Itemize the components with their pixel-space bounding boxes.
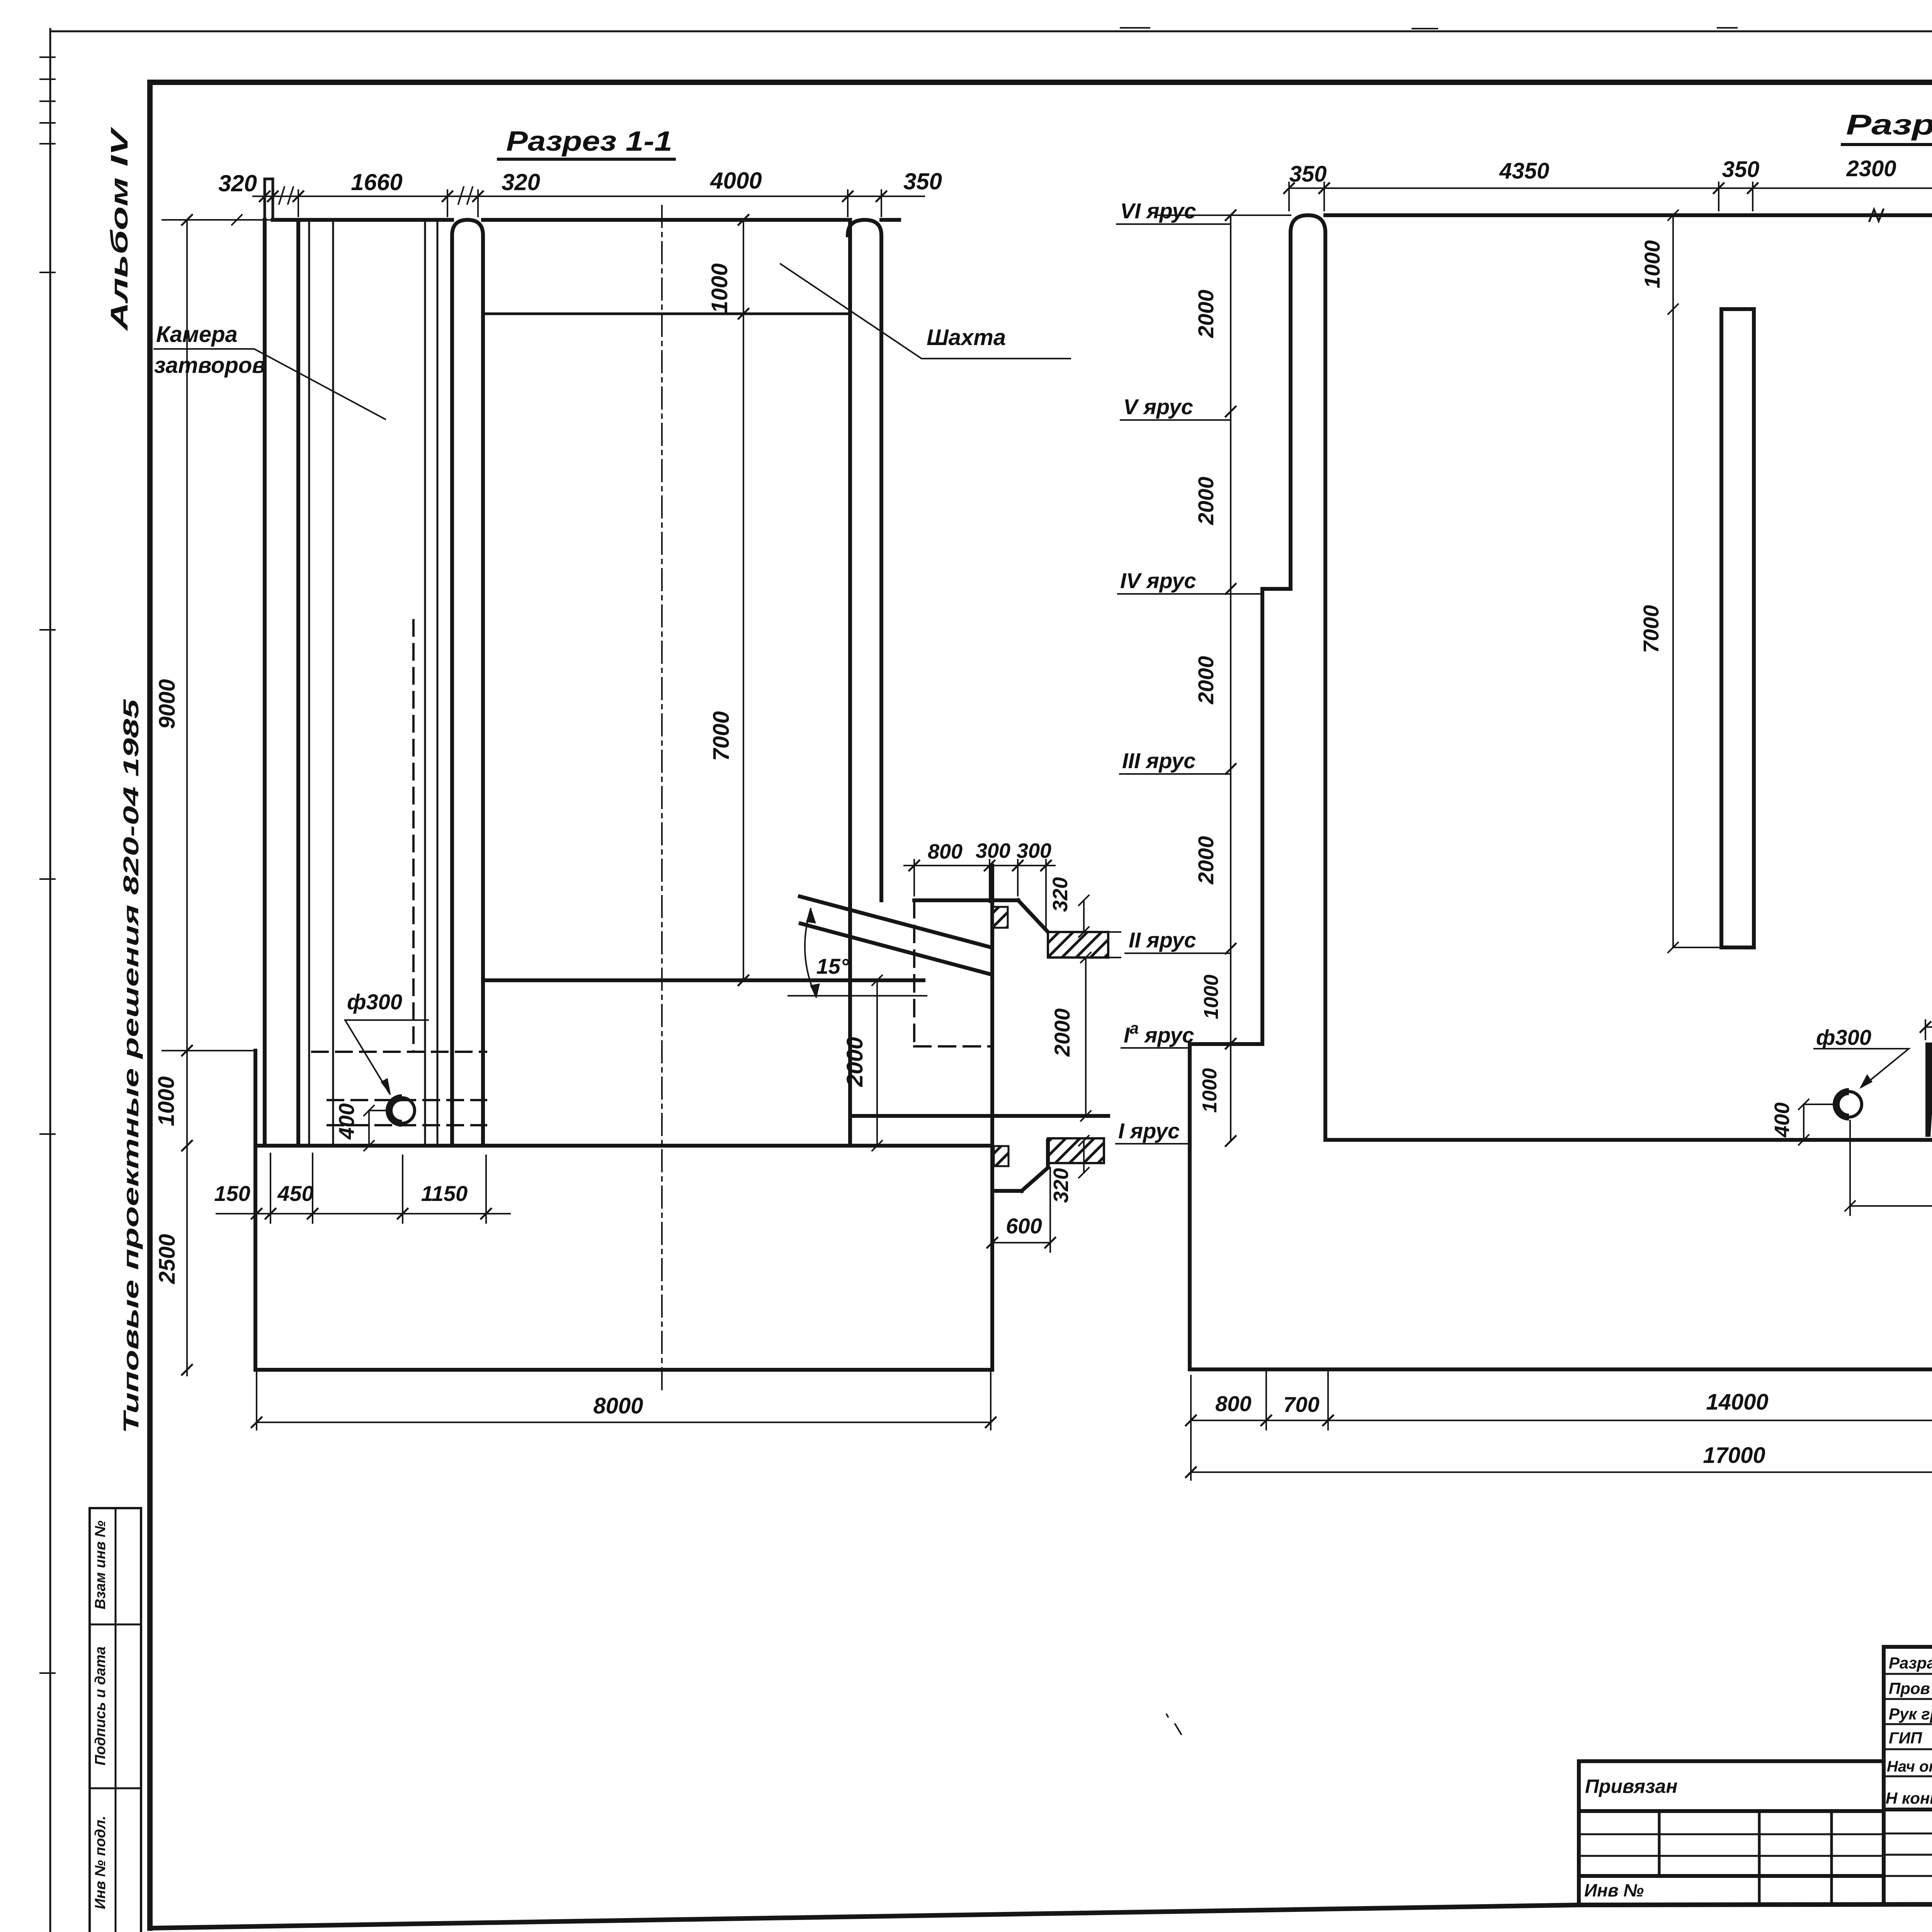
ticks bottom dims — [252, 1209, 491, 1219]
svg-text:450: 450 — [277, 1181, 313, 1206]
15 deg arc — [805, 909, 816, 997]
portal dim line 800/300/300 — [904, 865, 1055, 866]
svg-text:ГИП: ГИП — [1889, 1729, 1922, 1747]
privyazan table — [1579, 1761, 1884, 1903]
left dim line of section 1-1 — [186, 220, 188, 1376]
level line 1000 below top — [483, 313, 848, 315]
svg-text:затворов: затворов — [154, 353, 265, 378]
chute incline lower line — [801, 923, 992, 975]
svg-text:Разрез 3-3: Разрез 3-3 — [1846, 109, 1932, 141]
svg-text:300: 300 — [976, 839, 1010, 862]
svg-text:800: 800 — [1215, 1391, 1251, 1416]
svg-text:7000: 7000 — [1639, 605, 1663, 653]
gate groove lines right — [425, 220, 437, 1146]
bottom-left attribute box — [90, 1508, 141, 1932]
svg-text:600: 600 — [1006, 1214, 1042, 1238]
levels dim line — [1230, 215, 1231, 1141]
dim line 1000/7000 inside shaft — [743, 220, 744, 980]
svg-text:Н контр: Н контр — [1886, 1789, 1932, 1807]
svg-text:150: 150 — [214, 1181, 250, 1206]
svg-text:Пров: Пров — [1889, 1679, 1930, 1697]
stamp outer box — [1884, 1647, 1932, 1903]
svg-text:Подпись и дата: Подпись и дата — [92, 1646, 109, 1765]
svg-text:Альбом IV: Альбом IV — [106, 126, 133, 332]
dim line 8000 — [257, 1370, 991, 1430]
border perforation ticks left — [40, 57, 55, 1673]
left wall inner face — [1323, 232, 1327, 1140]
svg-text:300: 300 — [1017, 839, 1051, 862]
svg-text:ф300: ф300 — [347, 990, 402, 1014]
svg-text:1000: 1000 — [1199, 1068, 1221, 1113]
svg-text:IV ярус: IV ярус — [1120, 568, 1196, 593]
sill band upper (hatched) — [1048, 932, 1108, 957]
svg-text:1000: 1000 — [1200, 975, 1223, 1019]
svg-text:Нач отд: Нач отд — [1887, 1758, 1932, 1775]
extension lines bottom dims — [257, 1153, 486, 1223]
portal outer wall vertical — [990, 866, 994, 1370]
outlet channel floor line — [852, 1114, 1108, 1118]
svg-text:8000: 8000 — [593, 1393, 643, 1418]
shaft floor 3-3 — [1325, 1138, 1932, 1142]
svg-text:320: 320 — [218, 170, 257, 196]
dim line 2000 plug — [872, 975, 882, 1151]
svg-text:1000: 1000 — [1640, 240, 1664, 289]
svg-text:V ярус: V ярус — [1123, 395, 1193, 419]
step extension line left — [162, 1050, 255, 1051]
svg-text:2300: 2300 — [1846, 156, 1896, 181]
hidden gate dashed vertical — [412, 620, 415, 1052]
dim 2000 outlet drop — [1081, 952, 1091, 1121]
gate slot hatched block upper — [993, 907, 1008, 928]
parapet stub on left wall — [265, 179, 273, 220]
svg-text:Шахта: Шахта — [927, 325, 1006, 350]
hidden opening dashed outline — [914, 901, 992, 1046]
svg-text:320: 320 — [502, 169, 540, 195]
portal top slab — [914, 898, 1018, 902]
svg-text:Рук гр: Рук гр — [1889, 1705, 1932, 1723]
sill band lower (hatched) — [1048, 1138, 1104, 1163]
svg-text:700: 700 — [1283, 1392, 1319, 1417]
leader line for Камера затворов — [154, 349, 385, 419]
left wall rounded top — [1291, 215, 1325, 233]
svg-text:2000: 2000 — [1194, 477, 1218, 526]
svg-text:2500: 2500 — [155, 1234, 180, 1284]
foundation slab bottom 3-3 — [1190, 1367, 1932, 1371]
dim ticks top 1-1 — [260, 191, 886, 201]
dim line 17000 — [1191, 1430, 1932, 1480]
hidden dashed horizontal at step — [312, 1051, 486, 1053]
svg-text:III ярус: III ярус — [1122, 748, 1196, 773]
level underlines — [1116, 224, 1262, 1144]
svg-text:2000: 2000 — [1050, 1009, 1074, 1057]
svg-text:Взам инв №: Взам инв № — [92, 1520, 109, 1609]
svg-text:VI ярус: VI ярус — [1120, 199, 1196, 223]
svg-text:350: 350 — [1722, 157, 1760, 182]
break marks on slab — [1869, 209, 1932, 221]
shaft right wall inner face — [848, 220, 852, 1145]
dim 600 — [992, 1168, 1050, 1252]
bottom dim line 150/450/1150 — [216, 1213, 510, 1214]
signature table rows — [1884, 1674, 1932, 1876]
top slab 3-3 — [1325, 213, 1932, 217]
plug top (shaft floor) — [484, 978, 923, 982]
svg-text:1150: 1150 — [421, 1181, 468, 1206]
svg-text:2000: 2000 — [1194, 836, 1218, 885]
foundation left edge — [253, 1051, 257, 1370]
svg-text:320: 320 — [1049, 1168, 1073, 1203]
title underline — [498, 158, 674, 161]
top edge tick at left — [232, 215, 273, 225]
chamber floor — [257, 1144, 992, 1148]
hidden dashed pipe lines — [328, 1100, 486, 1125]
dim 400 (3-3) — [1799, 1099, 1835, 1145]
gate groove lines left — [309, 220, 333, 1146]
baffle dim line 1000/7000 — [1668, 210, 1721, 952]
weir corner block (filled) — [1925, 1043, 1932, 1058]
bottom dim line 800/700/14000/700/800 — [1191, 1371, 1932, 1430]
stray mark — [1166, 1714, 1182, 1735]
leader ф300 (3-3) — [1814, 1049, 1909, 1087]
svg-text:Разраб: Разраб — [1889, 1654, 1932, 1672]
svg-text:400: 400 — [1770, 1102, 1794, 1138]
svg-text:9000: 9000 — [155, 679, 180, 729]
left outer wall — [263, 220, 267, 1146]
baffle wall — [1721, 309, 1754, 947]
svg-text:350: 350 — [903, 168, 942, 194]
svg-text:14000: 14000 — [1706, 1389, 1768, 1415]
svg-text:Привязан: Привязан — [1585, 1776, 1678, 1797]
dim 400 (pipe height) — [364, 1105, 388, 1151]
top slab stub right of wall — [881, 218, 899, 222]
extension lines — [1289, 182, 1932, 211]
svg-text:1660: 1660 — [351, 169, 402, 195]
shaft right wall outer face with rounded top — [848, 220, 881, 900]
frame bottom line — [150, 1903, 1932, 1928]
pipe ф300 circle (3-3) — [1836, 1092, 1862, 1117]
arrowhead on ф300 leader — [381, 1078, 391, 1096]
level ticks — [1226, 210, 1236, 1146]
svg-text:Инв № подл.: Инв № подл. — [92, 1816, 109, 1909]
leader line for Шахта — [781, 264, 1070, 359]
top slab left thin extension — [1155, 214, 1291, 216]
svg-text:2000: 2000 — [842, 1037, 867, 1087]
svg-text:1000: 1000 — [154, 1076, 179, 1126]
svg-text:II ярус: II ярус — [1129, 928, 1196, 952]
middle wall with rounded top — [452, 220, 483, 1146]
svg-text:2000: 2000 — [1194, 290, 1218, 338]
svg-text:1000: 1000 — [707, 263, 732, 313]
svg-text:17000: 17000 — [1703, 1443, 1765, 1468]
top dimension line 1-1 — [253, 196, 924, 197]
svg-text:400: 400 — [334, 1103, 359, 1139]
gate slot hatched block lower — [994, 1146, 1009, 1166]
svg-text:Разрез 1-1: Разрез 1-1 — [506, 126, 672, 157]
svg-text:Инв №: Инв № — [1584, 1880, 1644, 1900]
svg-text:Камера: Камера — [156, 322, 238, 347]
horizontal reference for 15 deg — [788, 995, 927, 997]
shaft centerline — [661, 206, 663, 1391]
lower portal jamb — [995, 1141, 1048, 1191]
title underline — [1842, 143, 1932, 146]
pipe ф300 circle (1-1) — [389, 1098, 415, 1123]
row thick under Н контр — [1884, 1808, 1932, 1811]
top slab line chamber — [273, 218, 452, 222]
border ticks top — [1121, 28, 1737, 29]
svg-text:4350: 4350 — [1499, 158, 1549, 184]
svg-text:I ярус: I ярус — [1118, 1119, 1180, 1143]
extension lines of top dims — [298, 190, 881, 216]
svg-text:350: 350 — [1289, 162, 1327, 187]
left wall inner face — [296, 220, 300, 1146]
svg-text:ф300: ф300 — [1816, 1025, 1871, 1049]
top slab line shaft — [483, 218, 848, 222]
portal dim ticks — [909, 861, 1051, 871]
svg-text:800: 800 — [928, 840, 963, 863]
svg-text:15°: 15° — [816, 954, 849, 978]
dim 1000 above weir — [1925, 1020, 1932, 1041]
svg-text:7000: 7000 — [709, 711, 734, 761]
svg-text:320: 320 — [1049, 877, 1072, 912]
foundation bottom slab — [255, 1368, 992, 1372]
break marks on dim line — [279, 187, 473, 204]
svg-text:Типовые проектные решения 8: Типовые проектные решения 820-04 1985 — [119, 699, 143, 1434]
svg-text:2000: 2000 — [1194, 656, 1218, 705]
left wall outer profile — [1190, 232, 1291, 1369]
portal chamfer upper — [1018, 900, 1048, 932]
chute incline upper line — [800, 896, 992, 947]
portal dim extensions — [914, 860, 1046, 927]
ticks — [1284, 183, 1932, 193]
dim 2800 — [1845, 1121, 1932, 1215]
svg-text:4000: 4000 — [710, 168, 762, 194]
leader ф300 — [345, 1020, 428, 1094]
top dim line 3-3 — [1289, 187, 1932, 189]
arrowheads 15deg arc — [806, 907, 816, 923]
